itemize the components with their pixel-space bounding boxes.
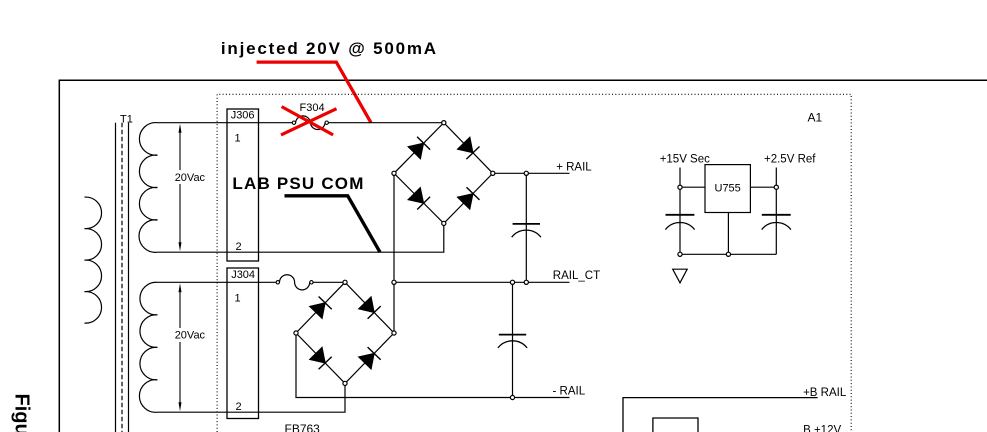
wire: fuse F303 to bridge2 top [313, 281, 345, 283]
wire: bridge1 left down to bridge2 right [393, 173, 395, 333]
net label + RAIL [556, 161, 592, 173]
callout text: injected 20V @ 500mA [221, 39, 438, 58]
svg-text:injected 20V @ 500mA: injected 20V @ 500mA [221, 39, 438, 58]
junction: bottom rail center [726, 252, 730, 256]
wire: bridge2 left down to -RAIL [296, 333, 570, 398]
diode D3 (bridge1 left-bottom) [408, 188, 430, 210]
junction: RAIL_CT cap C1 [524, 280, 528, 284]
junction: bridge1 right [491, 171, 495, 175]
svg-text:FB763: FB763 [285, 422, 321, 432]
svg-text:RAIL_CT: RAIL_CT [553, 270, 600, 282]
junction: bridge1 top [442, 121, 446, 125]
diode D8 (bridge2 bottom-right) [359, 347, 381, 369]
bridge rectifier 2 outline [296, 282, 394, 383]
wire: bottom rail of U755 [680, 253, 776, 255]
svg-text:+ RAIL: + RAIL [556, 161, 592, 173]
wire: bridge1 right to +RAIL [493, 172, 570, 174]
junction: U755 left [678, 185, 682, 189]
diode D4 (bridge1 bottom-right) [457, 187, 479, 209]
junction: bridge1 left [392, 171, 396, 175]
svg-text:U755: U755 [715, 183, 741, 195]
callout text: LAB PSU COM [232, 174, 364, 193]
svg-text:2: 2 [236, 241, 242, 253]
wire: secondary2 bottom to bridge2 bottom [158, 383, 346, 412]
transformer T1 primary winding [85, 197, 102, 323]
svg-text:+2.5V Ref: +2.5V Ref [764, 153, 816, 165]
junction: bridge2 right [392, 331, 396, 335]
svg-text:20Vac: 20Vac [175, 329, 206, 341]
label 20Vac (bottom winding) [175, 329, 206, 341]
junction: bridge2 top [343, 280, 347, 284]
module label A1 [808, 111, 823, 125]
wire: U755 left pin [680, 186, 705, 188]
wire: +15V stub down to bottom rail [679, 168, 681, 255]
figure caption (rotated) [11, 394, 33, 432]
svg-text:1: 1 [235, 133, 241, 145]
svg-text:2: 2 [236, 401, 242, 413]
diode D6 (bridge2 top-right) [359, 297, 381, 319]
junction: +RAIL cap [524, 171, 528, 175]
red X over fuse F304 [281, 107, 337, 135]
junction: bridge2 left [294, 331, 298, 335]
wire: RAIL_CT [394, 281, 570, 283]
A2 inner box (clipped) [653, 418, 698, 432]
diode D7 (bridge2 left-bottom) [310, 347, 332, 369]
svg-text:Figure 5: Figure 5 [11, 394, 33, 432]
svg-text:J304: J304 [231, 269, 255, 281]
capacitor C2 (RAIL_CT to -RAIL) [498, 282, 527, 397]
transformer T1 label [120, 113, 133, 125]
label +2.5V Ref [764, 153, 816, 165]
svg-text:F304: F304 [300, 102, 325, 114]
diode D1 (bridge1 left-top) [408, 137, 430, 159]
label +15V Sec [660, 153, 710, 165]
sheet frame [59, 80, 987, 432]
dimension arrow 20Vac (bottom winding) [179, 283, 182, 411]
svg-text:+15V Sec: +15V Sec [660, 153, 710, 165]
module A1 dashed border [217, 94, 851, 432]
net label - RAIL [553, 385, 586, 397]
svg-text:1: 1 [235, 292, 241, 304]
connector J304 [227, 268, 259, 419]
junction: -RAIL cap C2 [510, 395, 514, 399]
net label RAIL_CT [553, 270, 600, 282]
ground symbol [673, 269, 688, 283]
svg-text:B +12V: B +12V [803, 424, 841, 432]
wire: secondary1 bottom to bridge1 bottom (COM) [158, 223, 444, 252]
label 20Vac (top winding) [175, 172, 206, 184]
capacitor C3 (+15V) [665, 215, 694, 230]
svg-text:+B RAIL: +B RAIL [803, 387, 847, 399]
capacitor C1 (+RAIL to RAIL_CT) [512, 173, 541, 282]
red callout leader line [257, 62, 371, 123]
bridge rectifier 1 outline [394, 123, 493, 224]
dimension arrow 20Vac (top winding) [179, 124, 182, 252]
svg-text:J306: J306 [231, 110, 255, 122]
wire: secondary1 top to fuse F304 [158, 122, 293, 124]
connector J306 [227, 109, 259, 261]
label B +12V (clipped) [803, 424, 841, 432]
transformer T1 core [116, 123, 129, 432]
junction: RAIL_CT at vertical [392, 280, 396, 284]
capacitor C4 (+2.5V) [762, 215, 791, 230]
wire: secondary2 top to fuse F303 [158, 281, 277, 283]
fuse F304 label [300, 102, 325, 114]
wire: +2.5V stub down [775, 168, 777, 255]
label FB763 (clipped) [285, 422, 321, 432]
svg-text:LAB PSU COM: LAB PSU COM [232, 174, 364, 193]
fuse F304 [292, 116, 328, 130]
junction: bridge1 bottom [442, 221, 446, 225]
junction: bottom rail left [678, 252, 682, 256]
svg-text:A1: A1 [808, 111, 823, 125]
diode D5 (bridge2 left-top) [310, 297, 332, 319]
wire: fuse F304 to bridge1 top [328, 122, 444, 124]
label +B RAIL [803, 387, 847, 399]
module A2 box [623, 398, 818, 432]
fuse F303 [276, 275, 313, 290]
regulator U755 [705, 165, 750, 213]
wire: U755 bottom pin [727, 213, 729, 255]
transformer T1 secondary winding 1 [139, 123, 158, 253]
svg-text:- RAIL: - RAIL [553, 385, 586, 397]
junction: U755 right [774, 185, 778, 189]
diode D2 (bridge1 top-right) [457, 137, 479, 159]
junction: RAIL_CT cap C2 [510, 280, 514, 284]
transformer T1 secondary winding 2 [139, 282, 157, 412]
wire: U755 right pin [750, 186, 776, 188]
svg-text:20Vac: 20Vac [175, 172, 206, 184]
junction: bridge2 bottom [343, 381, 347, 385]
black callout leader line [285, 196, 381, 252]
